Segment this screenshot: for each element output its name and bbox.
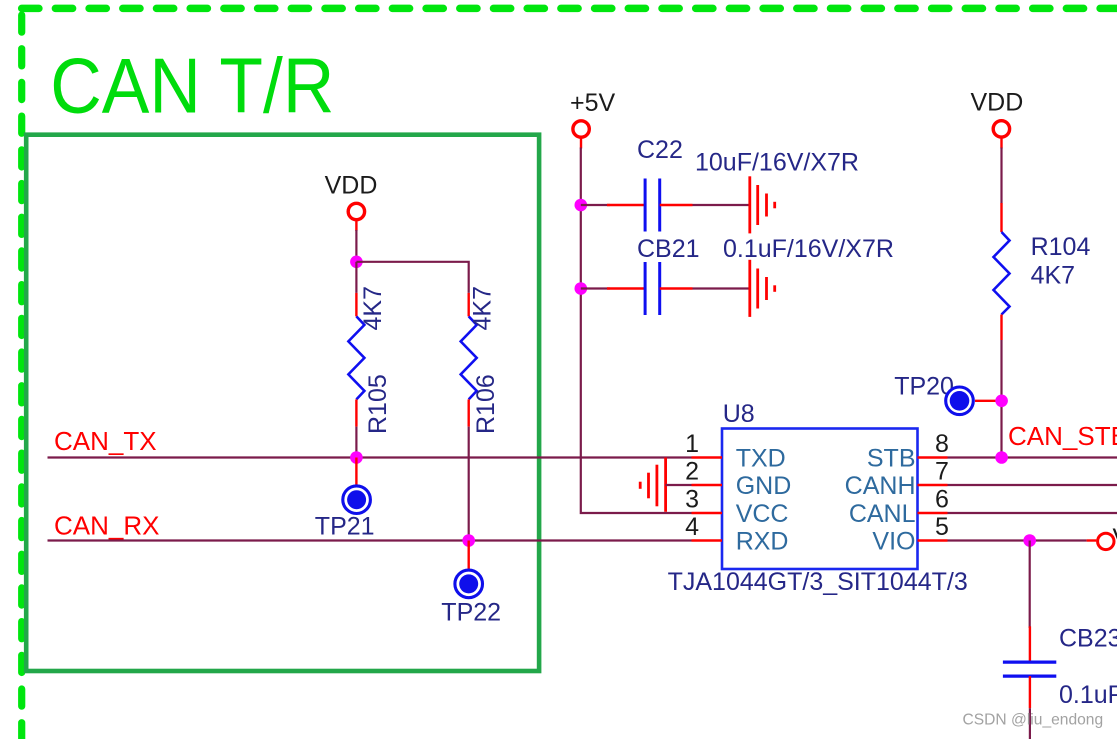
svg-text:4K7: 4K7 xyxy=(469,286,497,330)
svg-text:CAN T/R: CAN T/R xyxy=(50,42,334,130)
wire R106 bottom xyxy=(468,427,470,541)
test point TP20 xyxy=(894,373,1001,415)
svg-text:CB23: CB23 xyxy=(1059,625,1117,653)
wire CANH (pin 7 to edge) xyxy=(948,484,1117,486)
svg-text:1: 1 xyxy=(685,430,699,458)
wire VIO junction down to CB23 xyxy=(1029,541,1031,629)
resistor R105 xyxy=(348,293,364,427)
node CAN_RX / R106 junction xyxy=(462,534,475,547)
pin 7 CANH xyxy=(845,458,949,501)
svg-text:4: 4 xyxy=(685,513,699,541)
svg-text:CAN_RX: CAN_RX xyxy=(54,511,159,541)
pin 8 STB xyxy=(867,430,949,473)
pin 3 VCC xyxy=(685,486,788,529)
svg-text:CB21: CB21 xyxy=(637,235,700,263)
svg-text:R106: R106 xyxy=(472,374,500,434)
wire VDD left stub xyxy=(355,230,357,262)
svg-text:R104: R104 xyxy=(1031,233,1091,261)
svg-text:STB: STB xyxy=(867,445,916,473)
svg-text:2: 2 xyxy=(685,458,699,486)
svg-text:R105: R105 xyxy=(364,374,392,434)
svg-text:VDD: VDD xyxy=(325,172,378,200)
svg-text:CSDN @liu_endong: CSDN @liu_endong xyxy=(963,712,1104,729)
svg-text:TP21: TP21 xyxy=(315,513,375,541)
svg-text:3: 3 xyxy=(685,486,699,514)
capacitor CB23 xyxy=(1003,626,1056,708)
svg-text:C22: C22 xyxy=(637,136,683,164)
power port VIO xyxy=(1087,524,1117,552)
node VDD-left junction xyxy=(350,255,363,268)
node TP20 junction xyxy=(995,395,1008,408)
svg-text:+5V: +5V xyxy=(570,89,616,117)
wire VDD junction to R106 top xyxy=(356,262,468,293)
svg-text:8: 8 xyxy=(935,430,949,458)
node CB21 junction xyxy=(575,282,588,295)
sheet border dashed left xyxy=(18,15,25,739)
wire +5V riser xyxy=(581,148,692,514)
ground (C22) xyxy=(750,176,775,233)
pin 5 VIO xyxy=(872,513,948,556)
ground (CB21) xyxy=(750,260,775,317)
wire CANL (pin 6 to edge) xyxy=(948,512,1117,514)
node CAN_STB junction xyxy=(995,451,1008,464)
wire pin2 to ground xyxy=(666,484,692,486)
svg-text:VIO: VIO xyxy=(872,528,915,556)
svg-text:VCC: VCC xyxy=(736,500,789,528)
svg-text:CAN_TX: CAN_TX xyxy=(54,426,157,456)
node VIO junction xyxy=(1023,534,1036,547)
svg-text:7: 7 xyxy=(935,458,949,486)
svg-text:4K7: 4K7 xyxy=(1031,262,1075,290)
svg-text:VDD: VDD xyxy=(971,89,1024,117)
svg-text:RXD: RXD xyxy=(736,528,789,556)
sheet border dashed top xyxy=(22,5,1117,13)
resistor R104 xyxy=(994,203,1010,340)
svg-text:5: 5 xyxy=(935,513,949,541)
svg-text:10uF/16V/X7R: 10uF/16V/X7R xyxy=(695,149,859,177)
svg-text:TXD: TXD xyxy=(736,445,786,473)
wire VDD to R104 xyxy=(1000,148,1002,204)
svg-text:0.1uF/16V/X7R: 0.1uF/16V/X7R xyxy=(723,235,894,263)
svg-text:CAN_STB: CAN_STB xyxy=(1008,421,1117,451)
ground (U8 pin2) xyxy=(640,458,665,512)
wire R104 bottom xyxy=(1000,340,1002,458)
wire CAN_RX xyxy=(48,539,692,541)
capacitor C22 xyxy=(581,179,750,232)
capacitor CB21 xyxy=(581,262,750,315)
wire CAN_TX xyxy=(48,456,692,458)
test point TP21 xyxy=(315,458,375,541)
power port +5V xyxy=(570,89,616,149)
green group box xyxy=(26,135,539,671)
svg-text:6: 6 xyxy=(935,486,949,514)
power port VDD (right) xyxy=(971,89,1024,149)
power port VDD (left) xyxy=(325,172,378,232)
svg-text:GND: GND xyxy=(736,472,792,500)
wire R105 bottom xyxy=(355,427,357,458)
pin 6 CANL xyxy=(849,486,949,529)
svg-text:CANH: CANH xyxy=(845,472,916,500)
wire VIO (pin 5 to circle) xyxy=(948,539,1087,541)
svg-text:V: V xyxy=(1113,524,1117,552)
pin 2 GND xyxy=(685,458,791,501)
pin 1 TXD xyxy=(685,430,786,473)
pin 4 RXD xyxy=(685,513,788,556)
svg-text:TJA1044GT/3_SIT1044T/3: TJA1044GT/3_SIT1044T/3 xyxy=(668,568,968,596)
svg-text:0.1uF: 0.1uF xyxy=(1059,681,1117,709)
wire CB23 bottom xyxy=(1029,708,1031,739)
svg-text:4K7: 4K7 xyxy=(359,286,387,330)
resistor R106 xyxy=(461,293,477,427)
wire VDD junction to R105 top xyxy=(355,262,357,293)
node C22 junction xyxy=(575,199,588,212)
svg-text:CANL: CANL xyxy=(849,500,916,528)
test point TP22 xyxy=(441,541,501,627)
svg-text:U8: U8 xyxy=(723,400,755,428)
svg-text:TP22: TP22 xyxy=(441,599,501,627)
op U8 chip body xyxy=(722,400,918,569)
wire CAN_STB (pin 8 to edge) xyxy=(948,456,1117,458)
node CAN_TX / R105 junction xyxy=(350,451,363,464)
